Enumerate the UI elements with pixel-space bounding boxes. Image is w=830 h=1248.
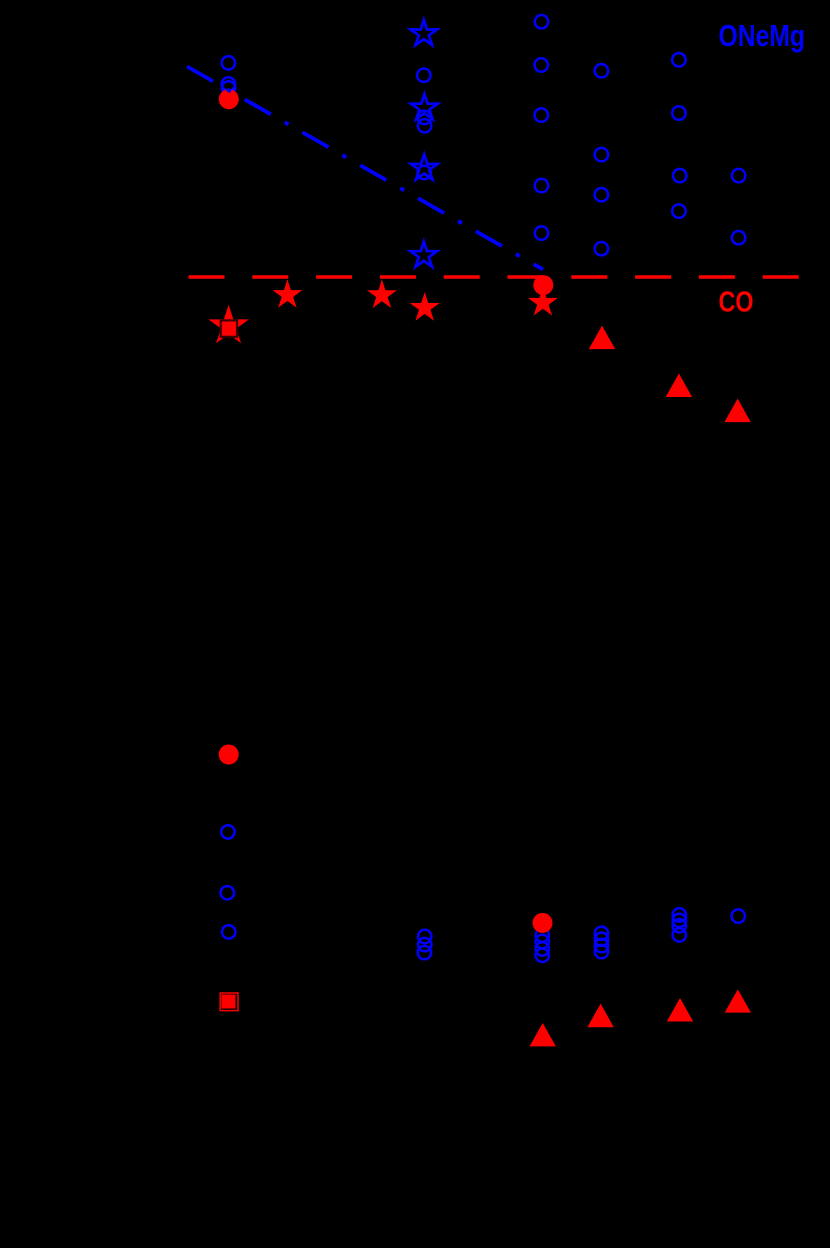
- svg-text:ONeMg: ONeMg: [719, 18, 806, 53]
- svg-text:CO: CO: [719, 287, 754, 319]
